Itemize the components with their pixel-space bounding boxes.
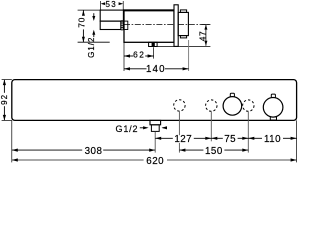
extension line: hole C down: [247, 112, 249, 153]
outlet stub core: [152, 42, 155, 46]
front outlet stem: [151, 125, 159, 132]
pipe socket inside body: [124, 21, 128, 29]
concealed hole C (dashed): [243, 100, 254, 111]
G1/2 label (side pipe): [87, 13, 96, 58]
dim 127: [155, 134, 211, 145]
knob bottom step: [180, 36, 186, 38]
svg-text:75: 75: [224, 134, 236, 145]
dim 110: [248, 134, 296, 145]
centerline (pipe axis): [124, 24, 210, 26]
svg-text:620: 620: [146, 156, 164, 166]
extension line: hole B down: [210, 112, 212, 142]
dim 140 right extension (knob front): [188, 40, 190, 71]
extension line: outlet down: [154, 132, 156, 153]
svg-text:G1/2: G1/2: [87, 37, 96, 58]
svg-text:G1/2: G1/2: [116, 124, 139, 134]
handle 2 bottom tab: [270, 117, 276, 120]
dim 92 extension bottom: [2, 119, 12, 121]
G1/2 leader arrow right: [140, 126, 149, 129]
bottom outlet stub (side): [149, 42, 158, 46]
svg-text:53: 53: [105, 0, 117, 9]
body top edge (thick): [123, 9, 174, 11]
extension line: left edge down: [11, 120, 13, 162]
pipe thread: [121, 21, 124, 30]
svg-text:140: 140: [146, 64, 166, 75]
front outlet flange: [150, 120, 161, 124]
dim 75: [211, 134, 248, 145]
svg-text:62: 62: [133, 49, 145, 59]
svg-text:92: 92: [0, 94, 9, 105]
svg-text:150: 150: [205, 146, 223, 157]
dim 53 extension lines: [100, 1, 102, 10]
handle 2: [263, 98, 283, 118]
handle 1 top tab: [230, 93, 234, 97]
body (side profile): [124, 10, 174, 42]
concealed hole B (dashed): [206, 100, 217, 111]
knob top step: [180, 10, 186, 13]
svg-text:110: 110: [264, 134, 281, 145]
dim 92 extension top: [2, 79, 12, 81]
handle 1: [223, 97, 242, 116]
concealed hole A (dashed): [174, 100, 185, 111]
front fascia plate: [174, 5, 178, 47]
dim 70: [77, 10, 87, 42]
svg-text:308: 308: [85, 146, 103, 157]
handle 2 top tab: [271, 94, 275, 98]
svg-text:47: 47: [198, 31, 208, 42]
dim 47: [198, 25, 211, 46]
extension line: right edge down: [296, 120, 298, 162]
dim 62 left extension (body edge down): [123, 42, 125, 71]
svg-text:127: 127: [174, 134, 192, 145]
svg-text:70: 70: [77, 17, 87, 28]
dim 150: [179, 146, 248, 157]
dim 62 right extension (outlet axis): [153, 47, 155, 58]
handle knob (side): [178, 12, 188, 35]
body bottom extension line: [78, 41, 110, 43]
dim 92: [0, 80, 9, 121]
dim 53: [101, 0, 124, 9]
fascia bottom extension line: [157, 45, 210, 47]
dim 140: [124, 64, 189, 75]
supply pipe G1/2: [100, 21, 121, 29]
G1/2 leader arrow left: [162, 126, 168, 129]
dim 308: [12, 146, 155, 157]
dim 62: [124, 49, 154, 59]
front panel: [12, 80, 297, 121]
body top extension line: [78, 9, 101, 11]
dim 620: [12, 156, 297, 167]
extension line: hole A down: [178, 111, 180, 135]
wall bracket box: [100, 10, 123, 21]
